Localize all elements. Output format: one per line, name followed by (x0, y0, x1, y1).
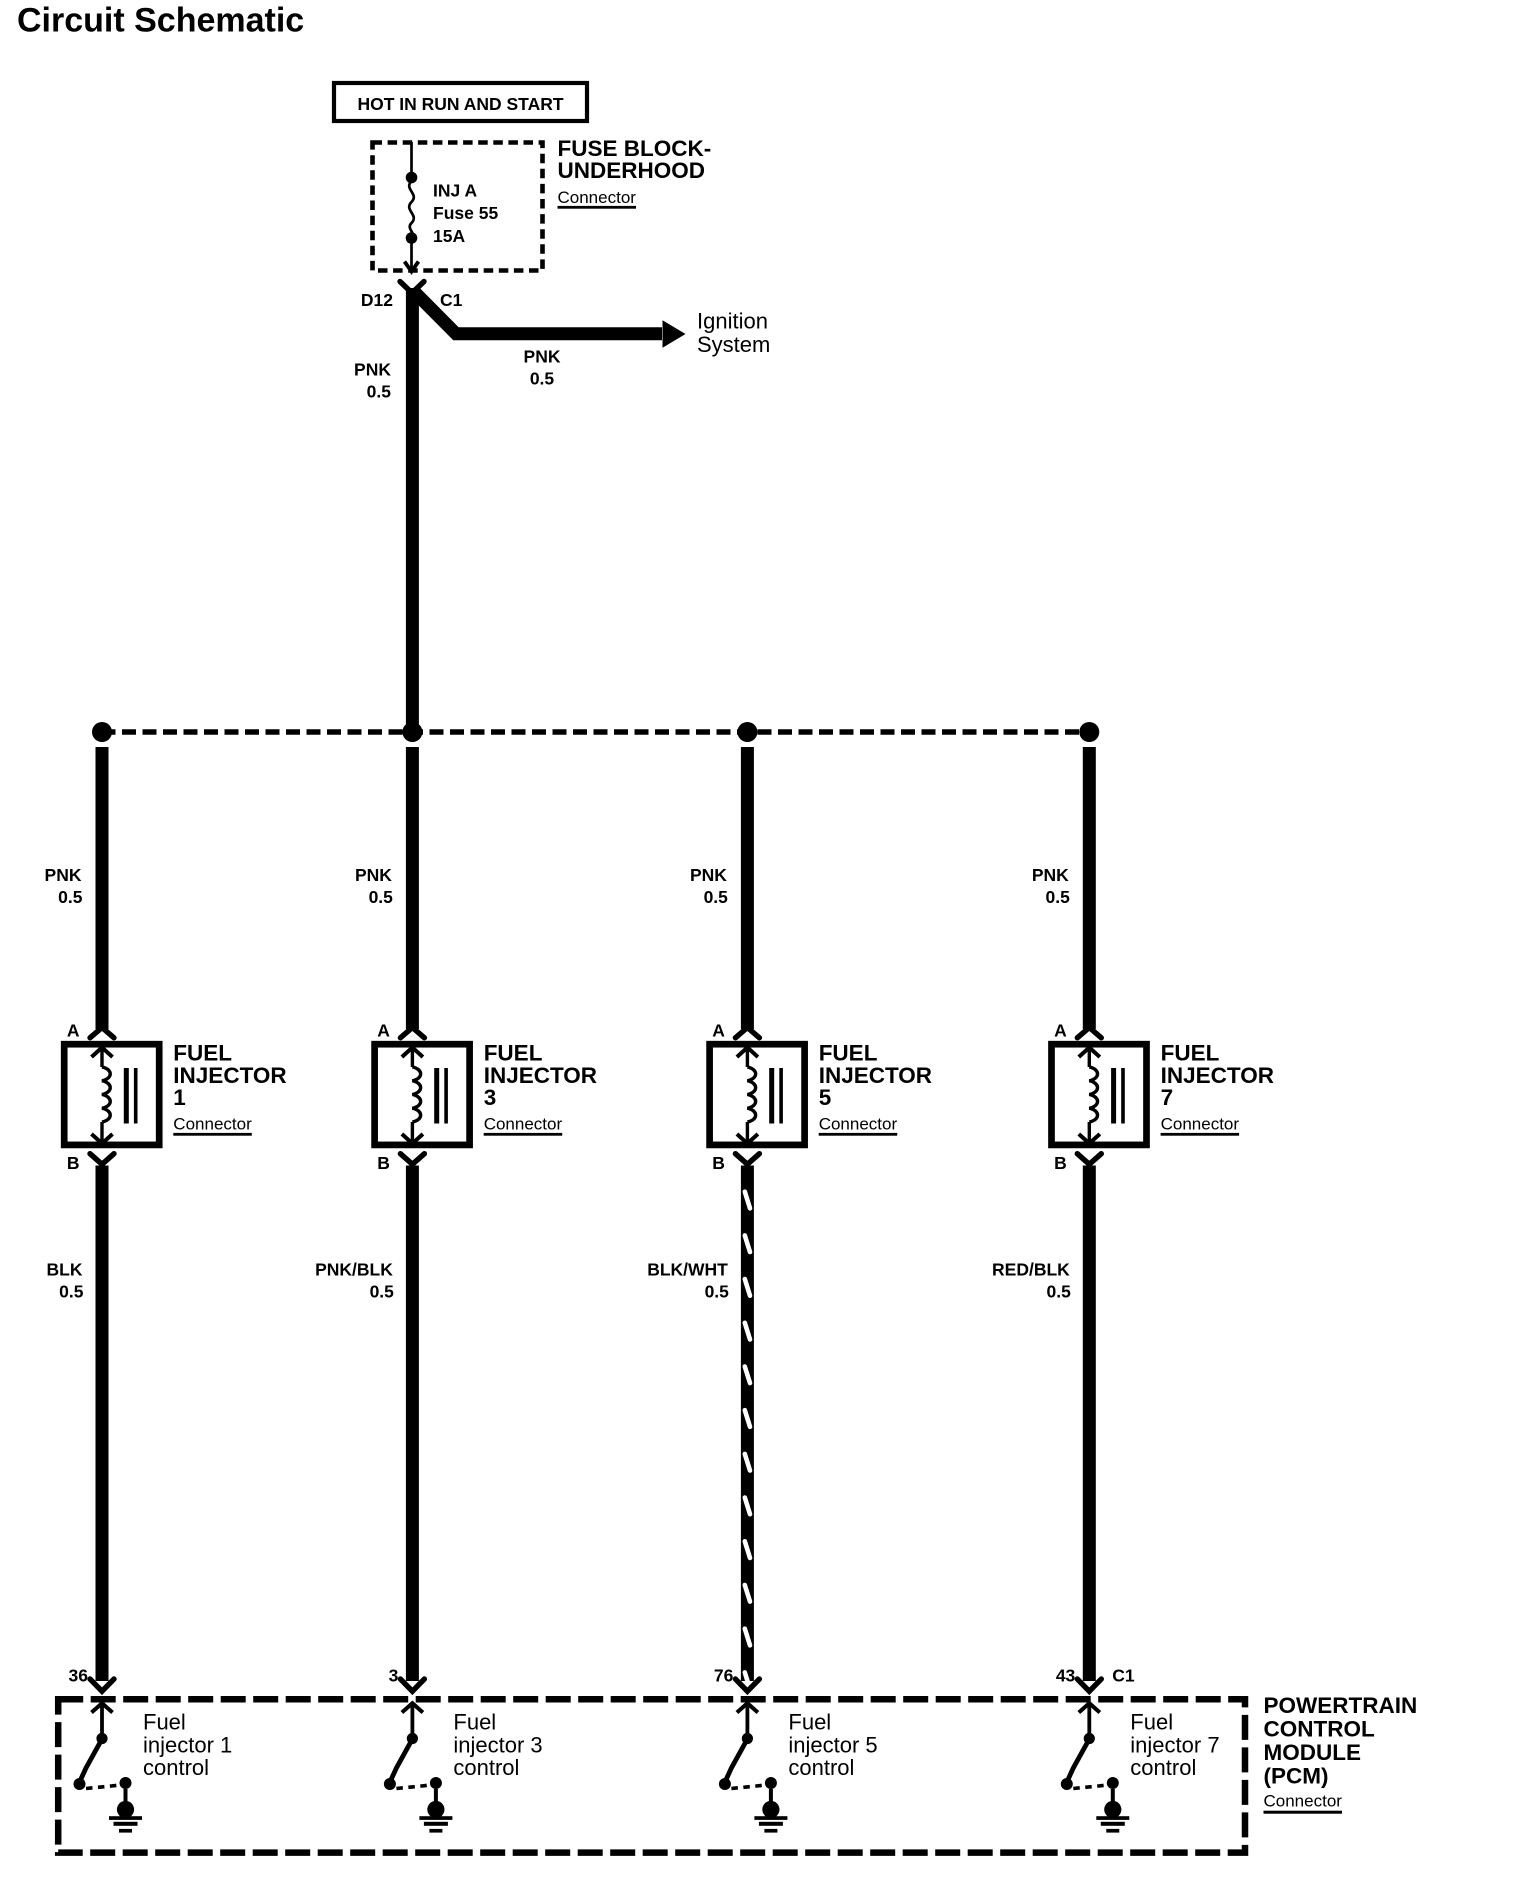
svg-text:D12: D12 (361, 290, 393, 310)
svg-text:76: 76 (714, 1666, 734, 1686)
svg-text:PNK: PNK (355, 865, 392, 885)
connector chevron pin B injector 5 (735, 1154, 759, 1165)
svg-text:CONTROL: CONTROL (1264, 1716, 1375, 1741)
svg-text:3: 3 (484, 1085, 497, 1110)
injector 1 core bars (124, 1068, 129, 1124)
svg-text:PNK: PNK (45, 865, 82, 885)
svg-text:Circuit Schematic: Circuit Schematic (17, 2, 304, 40)
wire PNK 0.5 from bus to fuel injector 1 (96, 747, 109, 1029)
svg-text:36: 36 (69, 1666, 89, 1686)
svg-text:0.5: 0.5 (530, 368, 555, 388)
svg-text:BLK: BLK (47, 1259, 83, 1279)
svg-text:injector 3: injector 3 (453, 1733, 542, 1758)
svg-text:injector 7: injector 7 (1130, 1733, 1219, 1758)
ground symbol for injector 7 driver (1096, 1789, 1129, 1833)
svg-text:7: 7 (1161, 1085, 1174, 1110)
svg-text:Connector: Connector (558, 188, 637, 207)
splice node dot column 7 (1079, 722, 1099, 742)
svg-text:15A: 15A (433, 226, 465, 246)
svg-text:Fuel: Fuel (788, 1710, 831, 1735)
wire PNK 0.5 from bus to fuel injector 7 (1083, 747, 1096, 1029)
injector 7 coil (1089, 1067, 1097, 1122)
arrowhead to Ignition System (663, 320, 686, 347)
PCM driver switch for injector 1 (74, 1703, 132, 1790)
svg-text:Fuel: Fuel (143, 1710, 186, 1735)
svg-text:Connector: Connector (173, 1115, 252, 1134)
svg-text:5: 5 (819, 1085, 832, 1110)
svg-text:0.5: 0.5 (58, 887, 83, 907)
svg-text:MODULE: MODULE (1264, 1740, 1362, 1765)
connector chevron pin A injector 3 (400, 1028, 424, 1038)
svg-text:B: B (712, 1153, 725, 1173)
connector chevron pin B injector 7 (1077, 1154, 1101, 1165)
splice node dot column 5 (737, 722, 757, 742)
svg-text:POWERTRAIN: POWERTRAIN (1264, 1693, 1418, 1718)
ground symbol for injector 1 driver (109, 1789, 142, 1833)
fuel injector 3 connector box (375, 1044, 470, 1145)
svg-text:0.5: 0.5 (1045, 887, 1070, 907)
wire BLK 0.5 from injector 1 to PCM pin 36 (96, 1166, 109, 1682)
splice node dot column 3 (402, 722, 422, 742)
ground symbol for injector 5 driver (754, 1789, 787, 1833)
fuel injector 5 connector box (710, 1044, 805, 1145)
PCM driver switch for injector 3 (384, 1703, 442, 1790)
wire PNK 0.5 from bus to fuel injector 3 (406, 747, 419, 1029)
svg-text:Connector: Connector (819, 1115, 898, 1134)
svg-text:0.5: 0.5 (370, 1281, 395, 1301)
svg-text:PNK: PNK (690, 865, 727, 885)
connector chevron pin A injector 1 (90, 1028, 114, 1038)
connector chevron pin B injector 3 (400, 1154, 424, 1165)
svg-text:PNK: PNK (1032, 865, 1069, 885)
svg-text:INJECTOR: INJECTOR (173, 1063, 286, 1088)
svg-text:FUEL: FUEL (173, 1041, 232, 1066)
svg-text:INJ A: INJ A (433, 180, 477, 200)
connector chevron at PCM pin 3 (400, 1679, 424, 1691)
injector 5 core bars (769, 1068, 774, 1124)
fuel injector 1 connector box (64, 1044, 159, 1145)
ground symbol for injector 3 driver (419, 1789, 452, 1833)
svg-text:RED/BLK: RED/BLK (992, 1259, 1070, 1279)
fuse block underhood dashed box (373, 143, 543, 271)
svg-text:C1: C1 (440, 290, 463, 310)
injector 5 coil (747, 1067, 755, 1122)
svg-text:FUEL: FUEL (819, 1041, 878, 1066)
wire PNK/BLK 0.5 from injector 3 to PCM pin 3 (406, 1166, 419, 1682)
svg-text:Fuel: Fuel (1130, 1710, 1173, 1735)
injector 3 core bars (434, 1068, 439, 1124)
svg-text:Fuel: Fuel (453, 1710, 496, 1735)
svg-text:A: A (1054, 1021, 1067, 1041)
white stripes on BLK/WHT wire (745, 1192, 750, 1689)
wire BLK/WHT 0.5 from injector 5 to PCM pin 76 (741, 1166, 754, 1682)
splice node dot column 1 (92, 722, 112, 742)
svg-text:control: control (143, 1755, 209, 1780)
svg-text:injector 1: injector 1 (143, 1733, 232, 1758)
connector chevron at PCM pin 43 (1077, 1679, 1101, 1691)
svg-text:HOT IN RUN AND START: HOT IN RUN AND START (357, 94, 563, 114)
connector chevron pin A injector 5 (735, 1028, 759, 1038)
svg-text:control: control (788, 1755, 854, 1780)
dashed splice bus (102, 729, 1090, 735)
connector chevron at PCM pin 76 (735, 1679, 759, 1691)
svg-text:0.5: 0.5 (705, 1281, 730, 1301)
connector chevron pin A injector 7 (1077, 1028, 1101, 1038)
svg-text:B: B (1054, 1153, 1067, 1173)
svg-text:INJECTOR: INJECTOR (484, 1063, 597, 1088)
powertrain control module dashed box (58, 1699, 1245, 1852)
svg-text:injector 5: injector 5 (788, 1733, 877, 1758)
connector chevron pin B injector 1 (90, 1154, 114, 1165)
connector chevron at PCM pin 36 (90, 1679, 114, 1691)
wire RED/BLK 0.5 from injector 7 to PCM pin 43 (1083, 1166, 1096, 1682)
svg-text:0.5: 0.5 (704, 887, 729, 907)
svg-text:A: A (712, 1021, 725, 1041)
svg-text:INJECTOR: INJECTOR (1161, 1063, 1274, 1088)
svg-text:Connector: Connector (1161, 1115, 1240, 1134)
svg-text:3: 3 (389, 1666, 399, 1686)
PCM driver switch for injector 5 (719, 1703, 777, 1790)
svg-text:0.5: 0.5 (369, 887, 394, 907)
wire PNK 0.5 from fuse D12 down to splice bus (406, 288, 419, 729)
svg-text:FUEL: FUEL (484, 1041, 543, 1066)
injector 1 coil (102, 1067, 110, 1122)
svg-text:Fuse 55: Fuse 55 (433, 203, 498, 223)
svg-text:System: System (697, 332, 770, 357)
svg-text:(PCM): (PCM) (1264, 1763, 1329, 1788)
svg-text:UNDERHOOD: UNDERHOOD (558, 158, 706, 183)
svg-text:0.5: 0.5 (1046, 1281, 1071, 1301)
svg-text:43: 43 (1056, 1666, 1076, 1686)
svg-text:B: B (67, 1153, 80, 1173)
svg-text:1: 1 (173, 1085, 186, 1110)
hot-in-run-and-start box (334, 83, 587, 121)
svg-text:INJECTOR: INJECTOR (819, 1063, 932, 1088)
svg-text:BLK/WHT: BLK/WHT (647, 1259, 728, 1279)
svg-text:0.5: 0.5 (367, 381, 392, 401)
connector chevron at fuse output node D12/C1 (400, 282, 424, 294)
fuse F: INJ A Fuse 55 15A (405, 142, 419, 272)
svg-text:A: A (377, 1021, 390, 1041)
injector 3 coil (412, 1067, 420, 1122)
svg-text:PNK/BLK: PNK/BLK (315, 1259, 393, 1279)
svg-text:Ignition: Ignition (697, 308, 768, 333)
svg-text:control: control (453, 1755, 519, 1780)
injector 7 core bars (1111, 1068, 1116, 1124)
svg-text:PNK: PNK (524, 346, 561, 366)
svg-text:Connector: Connector (484, 1115, 563, 1134)
svg-text:B: B (377, 1153, 390, 1173)
svg-text:Connector: Connector (1264, 1791, 1343, 1810)
svg-text:C1: C1 (1112, 1666, 1135, 1686)
PCM driver switch for injector 7 (1061, 1703, 1119, 1790)
svg-text:FUEL: FUEL (1161, 1041, 1220, 1066)
wire PNK 0.5 from bus to fuel injector 5 (741, 747, 754, 1029)
svg-text:control: control (1130, 1755, 1196, 1780)
wire branch PNK 0.5 to ignition system (413, 290, 663, 334)
svg-text:PNK: PNK (354, 359, 391, 379)
fuel injector 7 connector box (1052, 1044, 1147, 1145)
svg-text:0.5: 0.5 (59, 1281, 84, 1301)
svg-text:A: A (67, 1021, 80, 1041)
